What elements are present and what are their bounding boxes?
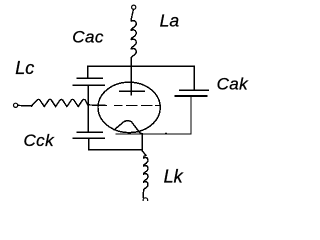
inductor La [131,21,136,59]
svg-text:Lc: Lc [15,58,34,78]
wire Cac bottom to grid node and down to Cck [87,85,89,132]
wire top terminal to La [131,10,133,22]
anode plate bar [120,90,144,92]
svg-text:Cck: Cck [24,131,56,150]
terminal left grid [14,103,18,107]
wire right column top [193,66,195,90]
wire Cak bottom to bottom line [190,96,192,134]
wire Lk to bottom terminal [142,190,145,197]
junction dot [165,132,167,134]
svg-text:La: La [160,10,180,30]
capacitor Cak [175,90,208,96]
wire Cck bottom to cathode line [89,138,143,149]
cathode filament [114,121,142,134]
terminal bottom cathode [143,198,148,203]
wire grid lead into tube [88,104,107,107]
capacitor Cac [73,78,104,85]
svg-text:Cak: Cak [217,75,250,94]
wire top horizontal line [88,65,194,67]
wire top-left corner down to Cac [87,66,89,78]
wire bottom horizontal line [116,133,191,135]
svg-text:Lk: Lk [164,166,184,186]
tube envelope circle [98,82,160,132]
wire La to top line [130,58,132,66]
inductor Lk [144,155,148,190]
inductor Lc zigzag [32,99,88,106]
grid dashed line [115,105,161,107]
wire cathode lead down [142,134,146,155]
terminal top anode [132,5,136,9]
wire left terminal to Lc [18,104,32,107]
capacitor Cck [74,132,105,138]
svg-text:Cac: Cac [72,28,104,47]
anode lead [130,66,132,94]
